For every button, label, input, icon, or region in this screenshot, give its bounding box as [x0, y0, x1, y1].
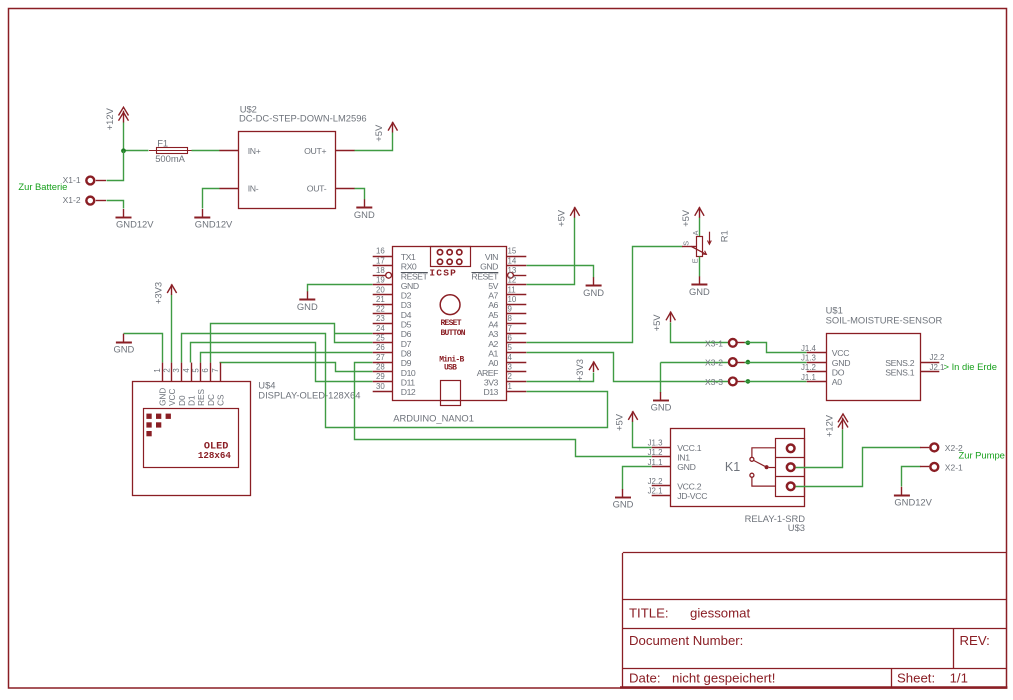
- svg-text:VCC: VCC: [168, 389, 177, 406]
- svg-text:J1.2: J1.2: [648, 448, 663, 457]
- svg-text:SOIL-MOISTURE-SENSOR: SOIL-MOISTURE-SENSOR: [826, 315, 943, 326]
- svg-text:+5V: +5V: [613, 413, 624, 431]
- svg-text:12: 12: [508, 276, 517, 285]
- svg-text:RX0: RX0: [401, 262, 417, 272]
- svg-text:GND12V: GND12V: [195, 219, 233, 230]
- svg-text:BUTTON: BUTTON: [441, 329, 466, 338]
- svg-text:IN1: IN1: [677, 452, 690, 462]
- svg-text:USB: USB: [444, 364, 457, 373]
- svg-text:+3V3: +3V3: [574, 359, 585, 381]
- svg-text:5V: 5V: [488, 281, 498, 291]
- svg-text:DC-DC-STEP-DOWN-LM2596: DC-DC-STEP-DOWN-LM2596: [239, 113, 367, 124]
- svg-text:RESET: RESET: [441, 319, 462, 328]
- svg-text:3: 3: [172, 368, 181, 373]
- svg-text:GND: GND: [159, 388, 168, 406]
- svg-text:26: 26: [376, 343, 385, 352]
- svg-text:X1-2: X1-2: [63, 195, 81, 205]
- svg-text:GND: GND: [297, 301, 318, 312]
- svg-text:J1.3: J1.3: [801, 354, 817, 363]
- svg-text:GND: GND: [401, 281, 419, 291]
- svg-text:REV:: REV:: [960, 633, 990, 648]
- svg-text:24: 24: [376, 324, 385, 333]
- svg-text:GND12V: GND12V: [116, 219, 154, 230]
- svg-text:D11: D11: [401, 377, 415, 387]
- svg-text:17: 17: [376, 256, 385, 265]
- svg-text:10: 10: [508, 295, 517, 304]
- svg-text:D3: D3: [401, 300, 412, 310]
- svg-text:+5V: +5V: [651, 314, 662, 332]
- svg-text:13: 13: [508, 266, 517, 275]
- svg-text:DC: DC: [207, 394, 216, 406]
- svg-text:2: 2: [508, 372, 512, 381]
- svg-text:23: 23: [376, 314, 385, 323]
- svg-text:A7: A7: [488, 291, 498, 301]
- svg-text:AREF: AREF: [477, 368, 498, 378]
- svg-text:X3-3: X3-3: [705, 377, 723, 387]
- svg-text:D6: D6: [401, 329, 412, 339]
- svg-text:18: 18: [376, 266, 385, 275]
- svg-text:X2-1: X2-1: [945, 462, 963, 472]
- svg-text:D8: D8: [401, 348, 412, 358]
- svg-text:GND: GND: [832, 358, 850, 368]
- svg-text:D0: D0: [178, 395, 187, 406]
- svg-text:21: 21: [376, 295, 385, 304]
- svg-text:+12V: +12V: [104, 107, 115, 130]
- svg-text:+5V: +5V: [373, 124, 384, 142]
- svg-text:1: 1: [508, 382, 512, 391]
- svg-text:25: 25: [376, 334, 385, 343]
- svg-text:IN-: IN-: [248, 184, 259, 194]
- svg-text:> In die Erde: > In die Erde: [944, 361, 997, 372]
- svg-text:IN+: IN+: [248, 146, 261, 156]
- svg-text:DO: DO: [832, 368, 845, 378]
- svg-text:30: 30: [376, 382, 385, 391]
- svg-text:J1.1: J1.1: [648, 458, 663, 467]
- svg-text:+3V3: +3V3: [152, 282, 163, 304]
- svg-text:nicht gespeichert!: nicht gespeichert!: [672, 671, 775, 686]
- svg-text:4: 4: [508, 353, 513, 362]
- svg-text:J1.4: J1.4: [801, 344, 817, 353]
- svg-text:K1: K1: [725, 460, 740, 474]
- svg-text:E: E: [690, 258, 699, 263]
- svg-text:J2.1: J2.1: [648, 487, 663, 496]
- svg-text:3V3: 3V3: [484, 377, 499, 387]
- svg-text:X3-1: X3-1: [705, 338, 723, 348]
- svg-text:VIN: VIN: [485, 252, 498, 262]
- svg-text:9: 9: [508, 305, 513, 314]
- svg-text:A0: A0: [488, 358, 498, 368]
- svg-text:giessomat: giessomat: [690, 605, 750, 620]
- svg-text:6: 6: [201, 368, 210, 373]
- svg-text:GND: GND: [677, 462, 695, 472]
- svg-text:3: 3: [508, 362, 513, 371]
- svg-text:19: 19: [376, 276, 385, 285]
- svg-text:D2: D2: [401, 291, 412, 301]
- svg-text:29: 29: [376, 372, 385, 381]
- svg-text:D1: D1: [188, 395, 197, 406]
- svg-text:GND: GND: [689, 286, 710, 297]
- svg-text:GND: GND: [113, 343, 134, 354]
- svg-text:27: 27: [376, 353, 385, 362]
- svg-text:5: 5: [191, 368, 200, 373]
- svg-text:1/1: 1/1: [950, 670, 968, 685]
- svg-text:Date:: Date:: [629, 671, 661, 686]
- svg-text:X3-2: X3-2: [705, 358, 723, 368]
- svg-text:SENS.2: SENS.2: [885, 358, 915, 368]
- svg-text:A5: A5: [488, 310, 498, 320]
- svg-text:GND: GND: [583, 287, 604, 298]
- svg-text:A3: A3: [488, 329, 498, 339]
- svg-text:D4: D4: [401, 310, 412, 320]
- svg-text:GND: GND: [651, 402, 672, 413]
- svg-text:14: 14: [508, 256, 517, 265]
- svg-text:J1.2: J1.2: [801, 363, 816, 372]
- svg-text:U$3: U$3: [788, 522, 805, 533]
- svg-text:SENS.1: SENS.1: [885, 368, 915, 378]
- svg-text:20: 20: [376, 285, 385, 294]
- svg-text:DISPLAY-OLED-128X64: DISPLAY-OLED-128X64: [258, 390, 360, 401]
- svg-text:28: 28: [376, 362, 385, 371]
- svg-text:D12: D12: [401, 387, 416, 397]
- svg-text:S: S: [682, 241, 691, 246]
- svg-text:A2: A2: [488, 339, 498, 349]
- svg-text:Zur Batterie: Zur Batterie: [18, 181, 67, 192]
- svg-text:Document Number:: Document Number:: [629, 633, 743, 648]
- svg-text:+12V: +12V: [823, 414, 834, 437]
- svg-text:Zur Pumpe: Zur Pumpe: [959, 450, 1005, 461]
- svg-text:D13: D13: [483, 387, 498, 397]
- svg-text:J2.1: J2.1: [930, 363, 945, 372]
- svg-text:6: 6: [508, 334, 513, 343]
- svg-text:A0: A0: [832, 377, 842, 387]
- svg-text:A4: A4: [488, 320, 498, 330]
- svg-text:TITLE:: TITLE:: [629, 605, 669, 620]
- svg-text:VCC.1: VCC.1: [677, 443, 702, 453]
- svg-text:CS: CS: [216, 394, 225, 406]
- svg-text:GND: GND: [613, 499, 634, 510]
- svg-text:500mA: 500mA: [155, 153, 185, 164]
- svg-text:A6: A6: [488, 300, 498, 310]
- svg-text:OUT-: OUT-: [307, 184, 327, 194]
- svg-text:D7: D7: [401, 339, 412, 349]
- svg-text:A1: A1: [488, 348, 498, 358]
- svg-text:+5V: +5V: [555, 209, 566, 227]
- svg-text:7: 7: [211, 368, 220, 372]
- svg-text:Sheet:: Sheet:: [897, 670, 935, 685]
- svg-text:128x64: 128x64: [198, 450, 232, 461]
- svg-text:4: 4: [182, 368, 191, 373]
- svg-text:VCC.2: VCC.2: [677, 481, 702, 491]
- svg-text:TX1: TX1: [401, 252, 416, 262]
- svg-text:5: 5: [508, 343, 513, 352]
- svg-text:J2.2: J2.2: [930, 353, 945, 362]
- svg-text:VCC: VCC: [832, 348, 849, 358]
- svg-text:1: 1: [153, 368, 162, 372]
- svg-text:15: 15: [508, 247, 517, 256]
- svg-text:+5V: +5V: [680, 209, 691, 227]
- svg-text:OUT+: OUT+: [304, 146, 326, 156]
- svg-text:J2.2: J2.2: [648, 477, 663, 486]
- svg-text:ARDUINO_NANO1: ARDUINO_NANO1: [393, 413, 474, 424]
- svg-text:D5: D5: [401, 320, 412, 330]
- svg-text:7: 7: [508, 324, 512, 333]
- svg-text:F1: F1: [157, 137, 168, 148]
- svg-text:16: 16: [376, 247, 385, 256]
- svg-text:R1: R1: [718, 230, 729, 242]
- svg-text:RES: RES: [197, 389, 206, 406]
- svg-text:JD-VCC: JD-VCC: [677, 491, 707, 501]
- svg-text:A: A: [691, 230, 700, 235]
- svg-text:D10: D10: [401, 368, 416, 378]
- svg-text:GND12V: GND12V: [894, 497, 932, 508]
- svg-text:D9: D9: [401, 358, 412, 368]
- svg-text:ICSP: ICSP: [429, 268, 457, 279]
- svg-text:22: 22: [376, 305, 385, 314]
- svg-text:8: 8: [508, 314, 513, 323]
- svg-text:J1.1: J1.1: [801, 373, 816, 382]
- svg-text:GND: GND: [354, 209, 375, 220]
- svg-text:GND: GND: [480, 262, 498, 272]
- svg-text:11: 11: [508, 285, 516, 294]
- svg-text:2: 2: [163, 368, 172, 372]
- svg-text:J1.3: J1.3: [648, 439, 664, 448]
